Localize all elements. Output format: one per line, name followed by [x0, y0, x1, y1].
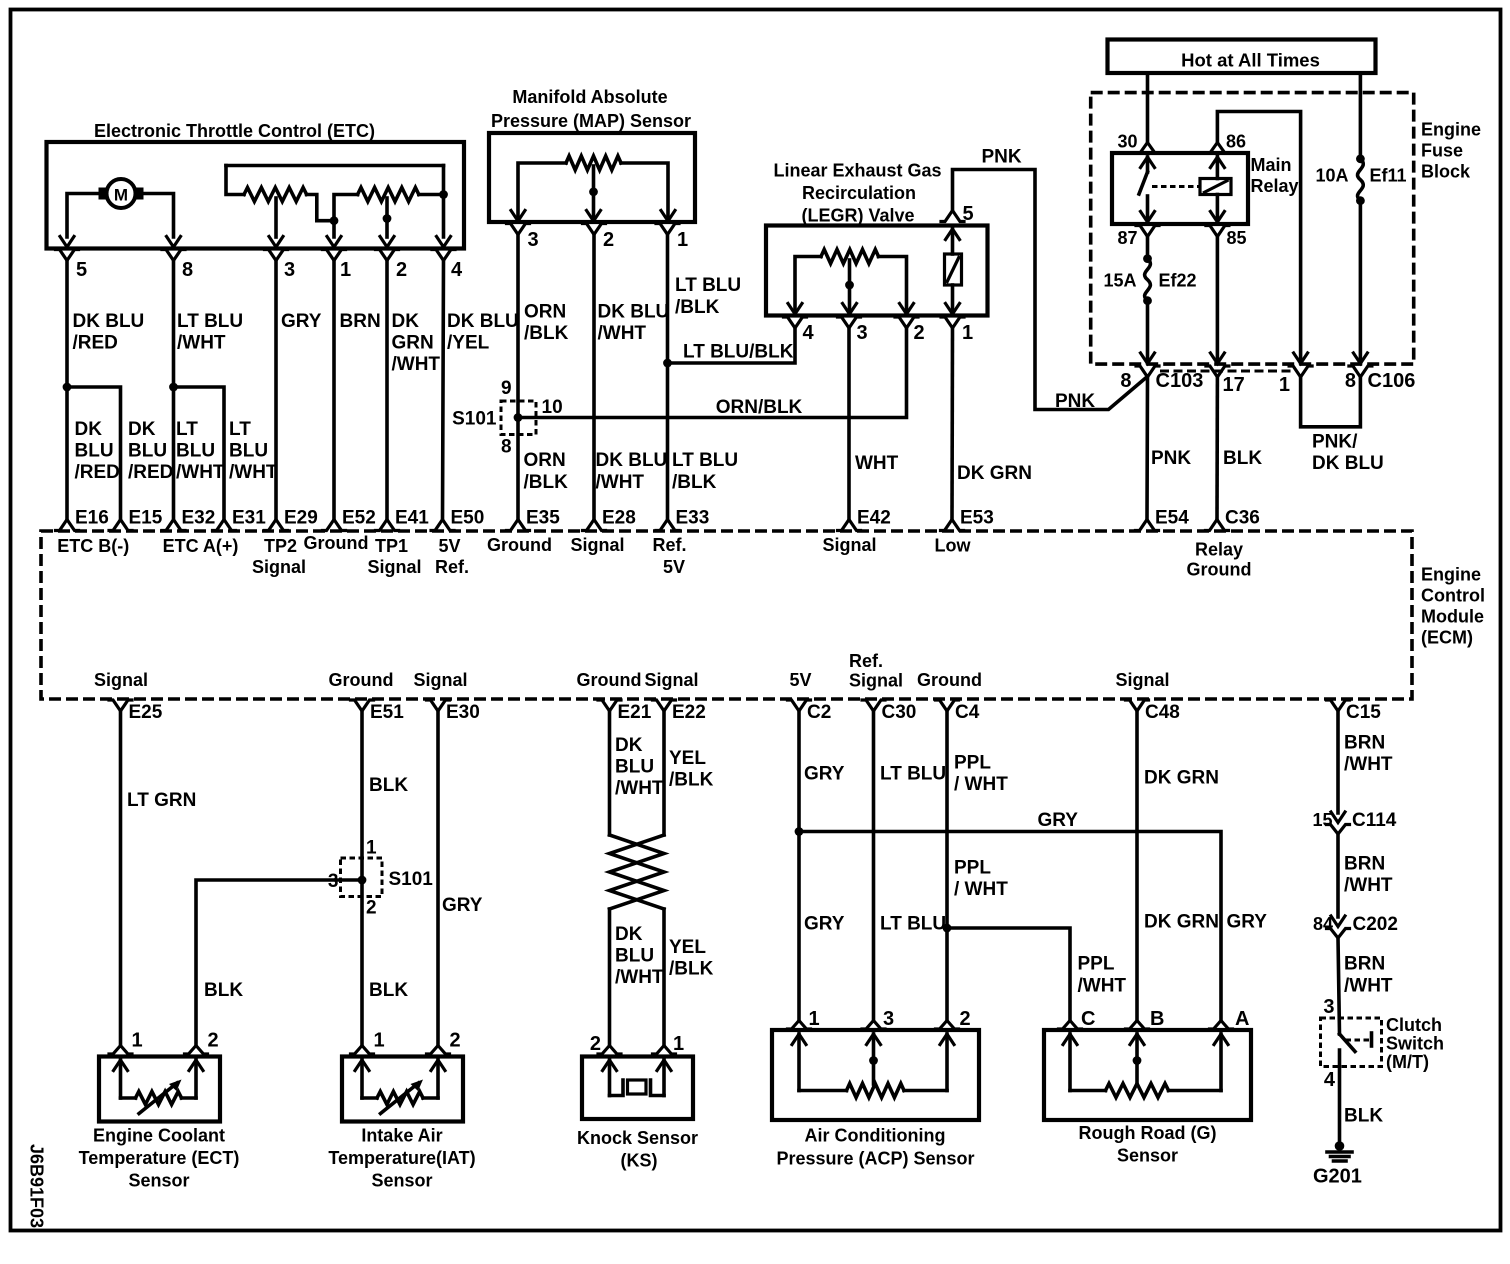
svg-text:C103: C103 — [1156, 370, 1204, 392]
arrow LEGR pin5 in — [946, 229, 960, 240]
wire MAP center tap — [592, 166, 596, 220]
svg-text:Engine Coolant: Engine Coolant — [93, 1126, 225, 1146]
ECM pin E31 connector — [213, 520, 236, 531]
ETC pin 5 connector — [56, 250, 79, 261]
svg-text:LT BLU: LT BLU — [675, 275, 741, 296]
wire res2 left lead — [334, 195, 358, 238]
ECM pin E50 connector — [431, 520, 454, 531]
svg-text:J6B91F03: J6B91F03 — [27, 1144, 47, 1228]
svg-text:/WHT: /WHT — [1078, 976, 1127, 997]
svg-text:A: A — [1235, 1008, 1249, 1030]
arrow C114 — [1331, 812, 1345, 823]
svg-text:/ WHT: / WHT — [954, 879, 1008, 900]
fuse Ef22 15A — [1145, 259, 1151, 301]
resistor LEGR position sensor — [821, 250, 879, 264]
ACP pin 3 connector — [862, 1021, 885, 1030]
ETC pin 4 connector — [432, 250, 455, 261]
svg-text:10: 10 — [542, 397, 563, 418]
svg-text:C202: C202 — [1353, 914, 1398, 935]
svg-text:Recirculation: Recirculation — [802, 183, 916, 203]
svg-text:3: 3 — [883, 1008, 894, 1030]
relay coil lower lead — [1216, 195, 1220, 223]
ECT sensor box — [99, 1057, 220, 1122]
wire clutch to ground — [1338, 1050, 1342, 1146]
svg-text:B: B — [1150, 1008, 1164, 1030]
svg-text:/WHT: /WHT — [1344, 754, 1393, 775]
piezo element right plate — [651, 1080, 665, 1096]
wire E21 upper — [608, 711, 612, 835]
svg-text:E54: E54 — [1155, 508, 1189, 529]
svg-text:E21: E21 — [618, 702, 652, 723]
svg-text:Signal: Signal — [367, 557, 421, 577]
node TP jog junction — [330, 216, 339, 225]
svg-text:4: 4 — [803, 322, 815, 344]
wire S101 to ECT2 — [196, 880, 362, 1046]
wire branch to E31 — [174, 387, 225, 520]
KS pin 1 connector — [653, 1046, 676, 1055]
svg-text:Sensor: Sensor — [1117, 1146, 1178, 1166]
svg-text:Main: Main — [1251, 155, 1292, 175]
ETC box — [47, 142, 465, 249]
ECT pin 2 connector — [185, 1046, 208, 1055]
wire C2 to ACP1 — [797, 711, 801, 1021]
ECM pin E30 connector — [427, 700, 450, 711]
svg-text:BLU: BLU — [615, 757, 654, 778]
resistor MAP — [566, 156, 621, 170]
svg-text:Relay: Relay — [1195, 540, 1243, 560]
svg-text:1: 1 — [673, 1033, 684, 1055]
svg-text:C2: C2 — [807, 702, 831, 723]
thermistor ECT — [121, 1096, 136, 1100]
svg-text:E52: E52 — [342, 508, 376, 529]
svg-text:DK: DK — [128, 419, 156, 440]
svg-text:ETC B(-): ETC B(-) — [57, 536, 129, 556]
svg-text:Manifold Absolute: Manifold Absolute — [512, 87, 667, 107]
arrow into ETC pin at x=67 — [60, 237, 74, 248]
svg-text:GRY: GRY — [804, 764, 845, 785]
svg-text:4: 4 — [1324, 1069, 1336, 1091]
wire res1 center tap — [274, 198, 278, 237]
wire C48 to RR-B — [1135, 711, 1139, 1021]
svg-text:Ground: Ground — [577, 670, 642, 690]
node LT BLU/BLK junction — [663, 359, 672, 368]
svg-text:/WHT: /WHT — [615, 778, 664, 799]
MAP box — [489, 133, 695, 222]
wire KS1 lower — [662, 909, 666, 1046]
arrow C103-17 — [1210, 353, 1224, 364]
svg-text:E16: E16 — [75, 508, 109, 529]
wire MAP3 to E35 — [516, 235, 520, 520]
svg-text:Fuse: Fuse — [1421, 141, 1463, 161]
svg-text:Ef11: Ef11 — [1370, 166, 1407, 186]
ECM pin E33 connector — [656, 520, 679, 531]
svg-text:E22: E22 — [672, 702, 706, 723]
arrow C103-8 — [1141, 353, 1155, 364]
svg-text:S101: S101 — [389, 869, 434, 890]
node S101 junction — [514, 413, 523, 422]
svg-text:Signal: Signal — [1115, 670, 1169, 690]
svg-text:Pressure (MAP) Sensor: Pressure (MAP) Sensor — [491, 111, 691, 131]
wire ORN/BLK S101 to LEGR2 — [518, 328, 907, 418]
wire 86 loop up-over — [1217, 112, 1300, 364]
svg-text:Electronic Throttle Control (E: Electronic Throttle Control (ETC) — [94, 121, 375, 141]
connector C103 pin 1 — [1289, 366, 1312, 377]
svg-text:Engine: Engine — [1421, 120, 1481, 140]
svg-text:BRN: BRN — [1344, 733, 1385, 754]
ECM pin E32 connector — [162, 520, 185, 531]
arrow LEGR pin4 out — [788, 304, 802, 315]
relay coil upper lead — [1216, 153, 1220, 179]
svg-text:1: 1 — [374, 1030, 385, 1052]
svg-text:BRN: BRN — [1344, 954, 1385, 975]
arrow into ETC pin at x=334 — [327, 237, 341, 248]
relay switch lower — [1146, 196, 1150, 222]
arrow ACP pin3 in — [867, 1034, 881, 1045]
svg-text:1: 1 — [809, 1008, 820, 1030]
svg-text:/BLK: /BLK — [669, 770, 714, 791]
ETC pin 3 connector — [265, 250, 288, 261]
svg-text:9: 9 — [501, 378, 512, 399]
ECT pin 1 connector — [109, 1046, 132, 1055]
wire GRY branch — [799, 832, 1221, 1021]
svg-text:85: 85 — [1227, 228, 1247, 248]
svg-text:Ref.: Ref. — [435, 557, 469, 577]
svg-text:Block: Block — [1421, 162, 1471, 182]
ECM pin E16 connector — [56, 520, 79, 531]
piezo element left plate — [610, 1080, 624, 1096]
svg-text:2: 2 — [366, 898, 377, 919]
svg-text:Switch: Switch — [1386, 1034, 1444, 1054]
svg-text:DK BLU: DK BLU — [447, 311, 519, 332]
wire C202 to clutch switch — [1338, 938, 1340, 1034]
svg-text:LT BLU: LT BLU — [672, 450, 738, 471]
svg-text:LT BLU: LT BLU — [177, 311, 243, 332]
connector C114 — [1327, 825, 1350, 835]
svg-text:DK: DK — [615, 924, 643, 945]
svg-text:3: 3 — [857, 322, 868, 344]
clutch switch dashed box — [1321, 1018, 1382, 1067]
svg-text:Ground: Ground — [917, 670, 982, 690]
ECM pin C2 connector — [788, 700, 811, 711]
node split LT BLU/WHT — [169, 383, 178, 392]
svg-text:1: 1 — [366, 838, 377, 859]
arrow into MAP pin at x=668 — [661, 211, 675, 222]
svg-text:BLU: BLU — [229, 441, 268, 462]
ECM dashed box — [41, 531, 1412, 699]
ECM pin C4 connector — [936, 700, 959, 711]
svg-text:E33: E33 — [676, 508, 710, 529]
svg-text:ORN: ORN — [524, 450, 566, 471]
ETC pin 8 connector — [162, 250, 185, 261]
motor brush right — [134, 188, 144, 200]
wire Ef11 to C106-8 — [1359, 201, 1363, 363]
wire branch to E15 — [67, 387, 121, 520]
resistor TP sensor 2 — [358, 188, 419, 202]
svg-text:4: 4 — [451, 259, 463, 281]
svg-text:E50: E50 — [451, 508, 485, 529]
MAP pin 2 connector — [583, 224, 606, 235]
connector C103 pin 17 — [1206, 366, 1229, 377]
svg-text:Temperature (ECT): Temperature (ECT) — [79, 1148, 240, 1168]
svg-text:G201: G201 — [1313, 1166, 1362, 1188]
svg-text:2: 2 — [603, 229, 614, 251]
svg-text:E41: E41 — [395, 508, 429, 529]
svg-text:E29: E29 — [284, 508, 318, 529]
svg-text:8: 8 — [1120, 370, 1131, 392]
arrow into ETC pin at x=443.5 — [437, 237, 451, 248]
svg-text:Relay: Relay — [1251, 176, 1299, 196]
svg-text:BLK: BLK — [1344, 1106, 1383, 1127]
svg-text:Sensor: Sensor — [128, 1171, 189, 1191]
svg-text:1: 1 — [677, 229, 688, 251]
rough road sensor box — [1044, 1030, 1251, 1120]
svg-text:C106: C106 — [1368, 370, 1416, 392]
wire ETC5 to E16 — [65, 261, 69, 520]
RR pin C connector — [1059, 1021, 1082, 1030]
power feed box Hot at All Times — [1108, 40, 1376, 74]
svg-text:8: 8 — [1345, 370, 1356, 392]
node S101-2 junction — [358, 876, 367, 885]
wire MAP res left lead — [518, 163, 566, 220]
resistor ACP — [799, 1089, 847, 1093]
arrow RR pinC in — [1063, 1034, 1077, 1045]
thermistor IAT arrow — [381, 1083, 419, 1114]
svg-text:C4: C4 — [955, 702, 980, 723]
LEGR pin 4 connector — [784, 317, 807, 328]
svg-text:2: 2 — [396, 259, 407, 281]
svg-text:C114: C114 — [1352, 810, 1397, 831]
svg-text:BLK: BLK — [1223, 448, 1262, 469]
arrow ECT pin2 in — [189, 1060, 203, 1071]
svg-text:Sensor: Sensor — [371, 1171, 432, 1191]
svg-text:2: 2 — [590, 1033, 601, 1055]
wire LEGR3 to E42 — [847, 328, 851, 520]
svg-text:LT BLU/BLK: LT BLU/BLK — [683, 342, 794, 363]
svg-text:Ground: Ground — [487, 535, 552, 555]
wire PNK/DK BLU loop — [1301, 377, 1361, 427]
svg-text:2: 2 — [208, 1030, 219, 1052]
IAT pin 2 connector — [427, 1046, 450, 1055]
arrow C106-8 — [1353, 353, 1367, 364]
wire LEGR1 to E53 — [950, 328, 954, 520]
svg-text:Signal: Signal — [252, 557, 306, 577]
arrow into MAP pin at x=518 — [511, 211, 525, 222]
svg-text:Temperature(IAT): Temperature(IAT) — [328, 1148, 475, 1168]
splice S101 box 2 — [341, 858, 383, 897]
svg-text:E28: E28 — [602, 508, 636, 529]
wire ETC3 to E29 — [274, 261, 278, 520]
arrow ACP pin2 in — [940, 1034, 954, 1045]
arrow into ETC pin at x=276 — [269, 237, 283, 248]
svg-text:WHT: WHT — [855, 453, 899, 474]
wire LEGR tap — [848, 260, 852, 313]
svg-text:(KS): (KS) — [621, 1151, 658, 1171]
svg-text:DK GRN: DK GRN — [957, 463, 1032, 484]
connector C103 pin 8 — [1136, 366, 1159, 377]
svg-text:DK GRN: DK GRN — [1144, 768, 1219, 789]
ECM pin E53 connector — [941, 520, 964, 531]
motor M1 circle — [107, 179, 136, 208]
KS pin 2 connector — [598, 1046, 621, 1055]
svg-text:/BLK: /BLK — [524, 472, 569, 493]
svg-text:GRY: GRY — [281, 311, 322, 332]
IAT pin 1 connector — [351, 1046, 374, 1055]
svg-text:DK BLU: DK BLU — [598, 302, 670, 323]
svg-text:Hot at All Times: Hot at All Times — [1181, 50, 1320, 71]
svg-text:Intake Air: Intake Air — [361, 1126, 442, 1146]
svg-text:C48: C48 — [1145, 702, 1180, 723]
svg-text:DK: DK — [75, 419, 103, 440]
wire hot to fuse Ef11 — [1359, 73, 1363, 159]
clutch switch actuator — [1346, 1039, 1371, 1042]
wire PNK from C103 — [953, 170, 1146, 410]
svg-text:15: 15 — [1312, 810, 1332, 830]
wire ETC4 to E50 — [443, 261, 444, 520]
ECM pin E28 connector — [583, 520, 606, 531]
wire MAP2 to E28 — [592, 235, 596, 520]
node LEGR tap — [845, 281, 854, 290]
svg-text:5: 5 — [76, 259, 87, 281]
svg-text:BLU: BLU — [75, 441, 114, 462]
svg-text:E42: E42 — [857, 508, 891, 529]
svg-text:GRY: GRY — [1227, 912, 1268, 933]
ECM pin C36 connector — [1206, 520, 1229, 531]
arrow RR pinA in — [1214, 1034, 1228, 1045]
svg-text:E15: E15 — [129, 508, 163, 529]
wire E51 to IAT1 — [360, 711, 364, 1046]
motor brush left — [99, 188, 109, 200]
svg-text:/BLK: /BLK — [669, 959, 714, 980]
wire motor right lead — [144, 194, 174, 238]
svg-text:C36: C36 — [1225, 508, 1260, 529]
svg-text:Signal: Signal — [849, 671, 903, 691]
svg-text:PPL: PPL — [954, 858, 991, 879]
svg-text:/BLK: /BLK — [524, 323, 569, 344]
wire MAP1 to E33 — [666, 235, 670, 520]
svg-text:17: 17 — [1223, 374, 1245, 396]
arrow ACP pin1 in — [792, 1034, 806, 1045]
svg-text:DK BLU: DK BLU — [596, 450, 668, 471]
wire ETC2 to E41 — [385, 261, 389, 520]
svg-text:E51: E51 — [370, 702, 404, 723]
resistor RR — [1070, 1089, 1106, 1093]
connector C202 — [1327, 929, 1350, 939]
svg-text:/WHT: /WHT — [177, 333, 226, 354]
svg-text:BLU: BLU — [176, 441, 215, 462]
svg-text:/BLK: /BLK — [672, 472, 717, 493]
relay pin 87 connector — [1136, 226, 1159, 237]
LEGR pin 5 connector — [941, 211, 964, 222]
arrow LEGR pin2 out — [900, 304, 914, 315]
relay pin 86 connector — [1206, 143, 1229, 154]
ECM pin E22 connector — [653, 700, 676, 711]
relay coil — [1200, 179, 1231, 195]
wire C30 to ACP3 — [872, 711, 876, 1021]
svg-text:E25: E25 — [129, 702, 163, 723]
ETC pin 1 connector — [323, 250, 346, 261]
svg-text:BRN: BRN — [340, 311, 381, 332]
svg-text:1: 1 — [132, 1030, 143, 1052]
svg-text:5V: 5V — [789, 670, 811, 690]
solenoid coil LEGR — [945, 254, 962, 285]
svg-text:3: 3 — [528, 229, 539, 251]
MAP pin 3 connector — [507, 224, 530, 235]
node GRY branch — [795, 827, 804, 836]
svg-text:Signal: Signal — [822, 535, 876, 555]
svg-text:/WHT: /WHT — [229, 462, 278, 483]
svg-text:PNK/: PNK/ — [1312, 432, 1358, 453]
svg-text:8: 8 — [182, 259, 193, 281]
svg-text:LT GRN: LT GRN — [127, 790, 196, 811]
LEGR pin 3 connector — [838, 317, 861, 328]
ACP pin 1 connector — [788, 1021, 811, 1030]
svg-text:(ECM): (ECM) — [1421, 628, 1473, 648]
svg-text:ETC A(+): ETC A(+) — [163, 536, 239, 556]
svg-text:/RED: /RED — [128, 462, 173, 483]
svg-text:ORN/BLK: ORN/BLK — [716, 397, 803, 418]
wire ETC8 to E32 — [172, 261, 176, 520]
ETC pin 2 connector — [376, 250, 399, 261]
svg-text:84: 84 — [1313, 914, 1333, 934]
arrow into MAP pin at x=593.5 — [587, 211, 601, 222]
ECM pin E21 connector — [598, 700, 621, 711]
svg-text:1: 1 — [1279, 374, 1290, 396]
svg-text:Ref.: Ref. — [849, 651, 883, 671]
svg-text:Signal: Signal — [570, 535, 624, 555]
ACP pin 2 connector — [936, 1021, 959, 1030]
svg-text:LT BLU: LT BLU — [880, 764, 946, 785]
ECM pin E54 connector — [1136, 520, 1159, 531]
svg-text:Module: Module — [1421, 607, 1484, 627]
svg-text:Control: Control — [1421, 586, 1485, 606]
svg-text:LT: LT — [176, 419, 198, 440]
svg-text:LT: LT — [229, 419, 251, 440]
svg-text:3: 3 — [284, 259, 295, 281]
svg-text:PNK: PNK — [982, 147, 1022, 168]
wire res2 center tap — [385, 198, 389, 237]
svg-text:/WHT: /WHT — [615, 967, 664, 988]
svg-text:/WHT: /WHT — [1344, 976, 1393, 997]
wire C15 upper — [1336, 711, 1340, 813]
RR pin B connector — [1126, 1021, 1149, 1030]
svg-text:PPL: PPL — [954, 753, 991, 774]
svg-text:E32: E32 — [182, 508, 216, 529]
svg-text:Air Conditioning: Air Conditioning — [805, 1126, 946, 1146]
ACP sensor box — [772, 1030, 979, 1120]
connector C106 pin 8 — [1349, 366, 1372, 377]
svg-text:/WHT: /WHT — [1344, 875, 1393, 896]
wire LEGR res left — [795, 257, 821, 314]
ECM pin E15 connector — [109, 520, 132, 531]
wire E22 upper — [662, 711, 666, 835]
arrow IAT pin2 in — [431, 1060, 445, 1071]
wire E25 to ECT1 — [119, 711, 123, 1046]
ECM pin E25 connector — [109, 700, 132, 711]
svg-text:3: 3 — [1323, 996, 1334, 1018]
relay actuation dashes — [1152, 185, 1199, 188]
splice S101 box — [501, 401, 536, 435]
svg-text:/YEL: /YEL — [447, 333, 490, 354]
arrow into ETC pin at x=173.5 — [167, 237, 181, 248]
svg-text:S101: S101 — [452, 409, 497, 430]
arrow KS pin2 in — [603, 1060, 617, 1071]
RR pin A connector — [1210, 1021, 1233, 1030]
svg-text:BLU: BLU — [615, 946, 654, 967]
relay pin 85 connector — [1206, 226, 1229, 237]
twisted pair wire A — [610, 835, 665, 909]
wire KS2 lower — [608, 909, 612, 1046]
svg-text:BRN: BRN — [1344, 854, 1385, 875]
